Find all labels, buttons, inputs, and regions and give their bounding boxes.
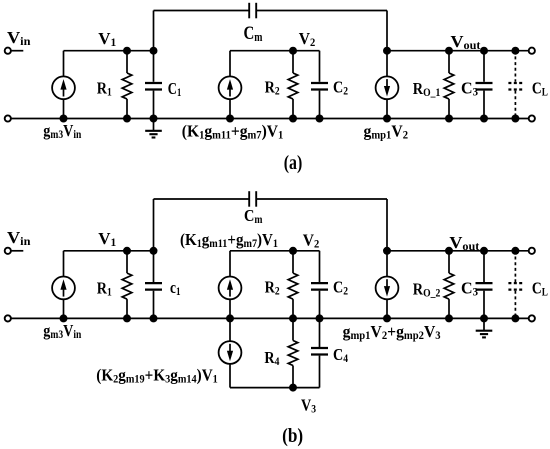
node dot C3 top (a) — [480, 47, 488, 55]
capacitor CL dashed (a) — [514, 51, 516, 119]
current source U1 gm3Vin leads (a) — [63, 51, 65, 77]
terminal Vin open circle (a) — [5, 48, 11, 54]
current source U6 (K2gm19+K3gm14)V1 leads (b) — [229, 318, 231, 341]
wire right drop from top rail to Vout node (b) — [386, 199, 388, 251]
capacitor Cm (a) — [249, 3, 256, 18]
wire node V1 row (a) — [64, 50, 154, 52]
current source U2 circle (a) — [219, 76, 242, 99]
wire Vin stub (a) — [11, 50, 23, 52]
terminal Vout open circle (a) — [529, 48, 535, 54]
node dot R1 bottom (b) — [123, 314, 131, 322]
node dot V3 at R4 bottom (b) — [289, 384, 297, 392]
node dot RO_1 bottom (a) — [445, 115, 453, 123]
node dot U2 bottom (a) — [226, 115, 234, 123]
svg-text:(K1gm11+gm7)V1: (K1gm11+gm7)V1 — [180, 230, 278, 250]
current source U5 circle (b) — [219, 277, 242, 300]
node dot RO_2 top (b) — [445, 247, 453, 255]
wire top rail right segment (a) — [256, 10, 387, 12]
node dot U3 bottom (a) — [383, 115, 391, 123]
node dot R1 bottom (a) — [123, 115, 131, 123]
wire node V2 row (a) — [230, 50, 320, 52]
current source U3 circle (a) — [376, 76, 399, 99]
node dot R2/R4 on rail (b) — [289, 314, 297, 322]
capacitor Cm (b) — [249, 191, 256, 207]
terminal bottom-left open circle (b) — [5, 315, 11, 321]
wire bottom rail (b) — [11, 317, 528, 319]
resistor RO_2 (b) — [448, 251, 450, 273]
wire C1 bottom lead (a) — [153, 91, 155, 119]
current source U1 arrow up (a) — [63, 87, 65, 97]
wire top rail left segment (a) — [154, 10, 250, 12]
wire node V2 row (b) — [230, 250, 320, 252]
terminal bottom-right open circle (b) — [529, 315, 535, 321]
node dot C1 bottom / ground (a) — [150, 115, 158, 123]
current source U2 (K1gm11+gm7)V1 leads (a) — [229, 51, 231, 77]
node dot CL bottom (a) — [511, 115, 519, 123]
node dot V2/R2 top (b) — [289, 247, 297, 255]
current source U4 gm3Vin circle (b) — [52, 277, 75, 300]
wire c1 bottom lead (b) — [153, 291, 155, 319]
capacitor C1 (a) — [145, 83, 162, 90]
wire top rail right segment (b) — [256, 198, 387, 200]
wire node V1 row (b) — [64, 250, 154, 252]
ground below C3 (b) — [483, 318, 485, 330]
node dot Vout at right drop (a) — [383, 47, 391, 55]
node dot U1 bottom (a) — [60, 115, 68, 123]
wire right drop from top rail to Vout node (a) — [386, 11, 388, 51]
current source U3 arrow down (a) — [386, 79, 388, 89]
capacitor C2 (b) — [319, 251, 321, 282]
current source U7 gmp1V2+gmp2V3 leads (b) — [386, 251, 388, 277]
node dot U5/U6 junction on rail (b) — [226, 314, 234, 322]
node dot c1 bottom (b) — [150, 314, 158, 322]
wire top rail left segment (b) — [154, 198, 250, 200]
node dot CL top (b) — [511, 247, 519, 255]
current source U6 circle (b) — [219, 341, 242, 364]
wire bottom rail (a) — [11, 118, 528, 120]
node dot RO_2 bottom (b) — [445, 314, 453, 322]
wire left drop from top rail into C1 column (a) — [153, 11, 155, 82]
node dot U7 bottom (b) — [383, 314, 391, 322]
node dot C1 column at V1 row (a) — [150, 47, 158, 55]
svg-text:(b): (b) — [282, 425, 303, 447]
current source U4 gm3Vin leads (b) — [63, 251, 65, 277]
terminal bottom-right open circle (a) — [529, 115, 535, 121]
node dot U4 bottom (b) — [60, 314, 68, 322]
node dot V1/R1 top (b) — [123, 247, 131, 255]
wire left drop from top rail into c1 column (b) — [153, 199, 155, 282]
resistor R2 (b) — [292, 251, 294, 273]
node dot Vout at right drop (b) — [383, 247, 391, 255]
current source U7 arrow down (b) — [386, 279, 388, 289]
current source U6 arrow down (b) — [229, 344, 231, 354]
capacitor CL dashed (b) — [514, 251, 516, 319]
current source U1 gm3Vin circle (a) — [52, 76, 75, 99]
node dot CL top (a) — [511, 47, 519, 55]
resistor R1 (a) — [126, 51, 128, 73]
node dot C3 bottom / ground (b) — [480, 314, 488, 322]
node dot c1 column at V1 row (b) — [150, 247, 158, 255]
svg-text:(a): (a) — [284, 152, 303, 174]
terminal Vout open circle (b) — [529, 248, 535, 254]
wire node Vout row (a) — [387, 50, 528, 52]
wire node Vout row (b) — [387, 250, 528, 252]
wire Vin stub (b) — [11, 250, 23, 252]
capacitor c1 (b) — [145, 283, 162, 290]
ground below C1 (a) — [153, 119, 155, 131]
terminal bottom-left open circle (a) — [5, 115, 11, 121]
node dot CL bottom (b) — [511, 314, 519, 322]
wire node V3 row (b) — [230, 387, 320, 389]
capacitor C3 (b) — [483, 251, 485, 282]
svg-text:(K1gm11+gm7)V1: (K1gm11+gm7)V1 — [182, 122, 284, 142]
capacitor C4 (b) — [319, 318, 321, 347]
current source U4 arrow up (b) — [63, 287, 65, 297]
capacitor C3 (a) — [483, 51, 485, 82]
node dot RO_1 top (a) — [445, 47, 453, 55]
node dot C2 bottom (a) — [316, 115, 324, 123]
terminal Vin open circle (b) — [5, 248, 11, 254]
resistor R2 (a) — [292, 51, 294, 73]
node dot R2 bottom (a) — [289, 115, 297, 123]
current source U5 (K1gm11+gm7)V1 leads (b) — [229, 251, 231, 277]
capacitor C2 (a) — [319, 51, 321, 82]
resistor RO_1 (a) — [448, 51, 450, 73]
node dot V2/R2 top (a) — [289, 47, 297, 55]
node dot C3 top (b) — [480, 247, 488, 255]
current source U2 arrow up (a) — [229, 87, 231, 97]
node dot C2/C4 on rail (b) — [316, 314, 324, 322]
resistor R1 (b) — [126, 251, 128, 273]
resistor R4 (b) — [292, 318, 294, 340]
node dot C3 bottom (a) — [480, 115, 488, 123]
node dot V1/R1 top (a) — [123, 47, 131, 55]
current source U7 circle (b) — [376, 277, 399, 300]
current source U3 gmp1V2 leads (a) — [386, 51, 388, 77]
current source U5 arrow up (b) — [229, 287, 231, 297]
